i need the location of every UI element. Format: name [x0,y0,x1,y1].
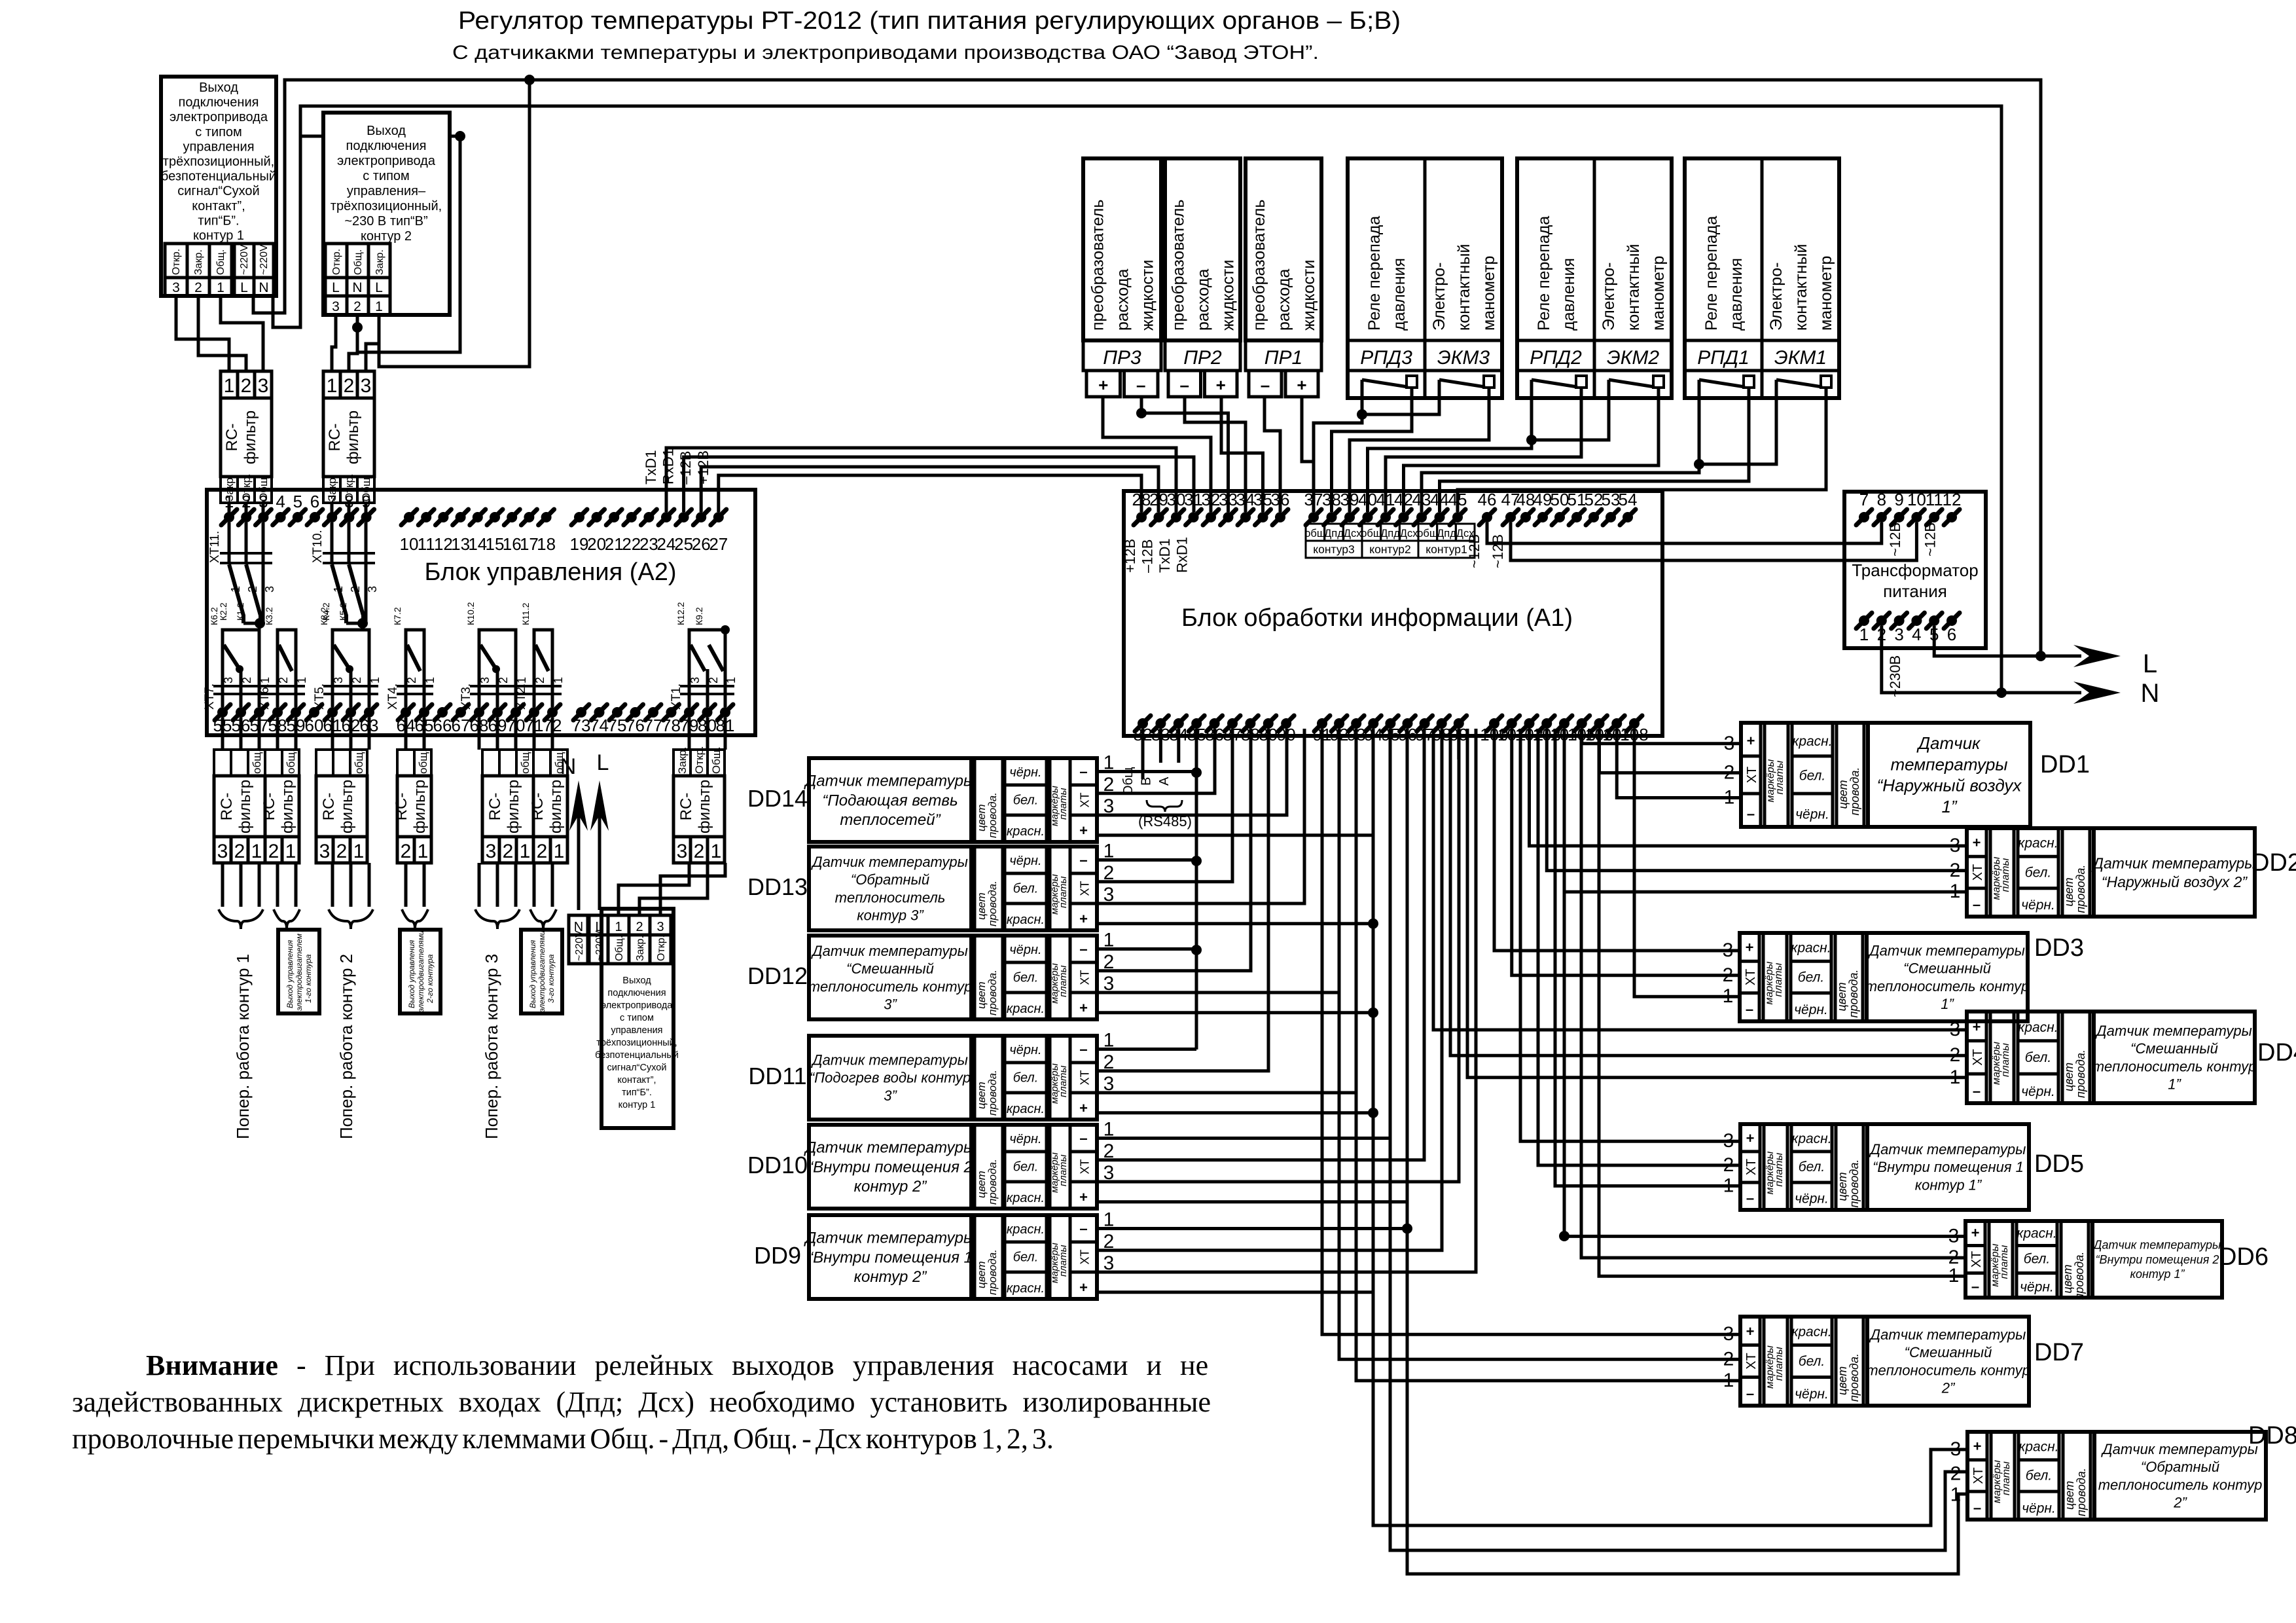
temperature sensor DD5 [1740,1124,2029,1210]
svg-text:цвет: цвет [2062,877,2075,906]
sensor pair box РПД1/ЭКМ1 [1685,158,1839,398]
svg-text:2: 2 [240,677,253,684]
svg-text:красн.: красн. [1791,1131,1831,1146]
svg-text:Закр.: Закр. [374,249,386,275]
svg-text:задействованных дискретных вхо: задействованных дискретных входах (Дпд; … [72,1386,1211,1418]
svg-text:1: 1 [554,841,565,862]
svg-text:электропривода: электропривода [337,154,436,168]
svg-text:фильтр: фильтр [547,780,565,833]
svg-text:“Обратный: “Обратный [2141,1459,2219,1475]
svg-text:–: – [1079,763,1087,780]
svg-text:1: 1 [224,375,235,397]
svg-text:–: – [1746,1001,1753,1017]
svg-text:3: 3 [361,375,372,397]
svg-text:DD9: DD9 [754,1242,801,1269]
svg-text:давления: давления [1390,258,1408,331]
svg-text:Датчик температуры: Датчик температуры [803,773,975,790]
wires DD4 from A1 pins 97-99 [1433,729,1967,1030]
svg-text:Откр.: Откр. [331,249,342,275]
svg-text:контур 2”: контур 2” [854,1178,927,1195]
svg-text:“Наружный воздух 2”: “Наружный воздух 2” [2102,873,2248,890]
wire bus N (from B1 ~220V N) across top [273,106,2001,693]
svg-text:расхода: расхода [1114,269,1132,331]
svg-text:4: 4 [276,492,285,511]
junction XT1 top [721,625,730,634]
wire ПР1+ to A1-37 riser [1302,397,1314,512]
temperature sensor DD1 [1741,723,2030,827]
svg-text:ЭКМ1: ЭКМ1 [1774,347,1827,369]
svg-text:Общ.: Общ. [215,249,226,275]
L output arrow [2041,655,2081,658]
svg-text:электродвигателями: электродвигателями [416,930,425,1012]
junction B2 N riser [455,131,465,141]
wire DD13-+ to +bus [1097,922,1373,925]
svg-text:контакт”,: контакт”, [617,1075,656,1085]
svg-text:бел.: бел. [1798,970,1824,985]
wire +12B A2-27 to A1-28 [719,475,1141,512]
svg-text:XT3.: XT3. [459,684,473,710]
svg-text:L: L [332,280,340,295]
wires DD8 (low routed) [1373,729,1967,1525]
svg-text:3: 3 [263,586,276,593]
svg-text:–: – [1747,805,1755,822]
svg-text:Реле перепада: Реле перепада [1365,216,1384,331]
svg-text:1: 1 [353,841,365,862]
A1 top terminals row (pins 28-54) [1134,509,1149,525]
junction B2-L riser on bus L [524,75,535,85]
box: Выход подключения электропривода ~230В тип В контур 2 [323,113,450,315]
svg-text:–: – [1261,375,1270,395]
svg-text:+: + [1747,733,1755,749]
wire DD13-3 to A1-91 [1097,729,1304,903]
temperature sensor DD6 [1965,1221,2222,1298]
junction L line [2036,651,2046,661]
temperature sensor DD9 [809,1215,1097,1299]
svg-text:25: 25 [674,534,693,554]
wires DD1 from A1 pins 105-107 [1582,729,1741,744]
svg-text:“Подающая ветвь: “Подающая ветвь [822,792,958,809]
svg-text:Закр.: Закр. [193,249,204,275]
svg-text:РПД3: РПД3 [1360,347,1412,369]
svg-text:1: 1 [259,677,272,684]
svg-text:3: 3 [366,586,379,593]
svg-text:13: 13 [451,534,470,554]
terminals +/- of ПР1 [1249,371,1282,397]
svg-text:“Внутри помещения 2: “Внутри помещения 2 [808,1158,973,1176]
svg-text:питания: питания [1883,581,1947,601]
svg-text:электродвигателями: электродвигателями [537,930,547,1012]
svg-text:1: 1 [423,677,437,684]
svg-text:контур 1: контур 1 [619,1100,656,1110]
svg-text:XT7.: XT7. [203,684,217,710]
wires DD7 [1322,729,1740,1334]
svg-text:чёрн.: чёрн. [2022,1501,2056,1516]
wire DD9-2 to A1-97 [1097,729,1442,1250]
svg-text:~220V: ~220V [239,244,250,275]
svg-text:49: 49 [1534,490,1552,509]
svg-text:Датчик температуры: Датчик температуры [810,943,968,959]
svg-text:–: – [1971,1279,1979,1295]
svg-text:L: L [597,750,609,775]
svg-text:Датчик температуры: Датчик температуры [1867,942,2025,958]
svg-text:Датчик температуры: Датчик температуры [810,854,968,870]
svg-text:жидкости: жидкости [1300,260,1318,331]
svg-text:3: 3 [319,841,331,862]
svg-text:контур 2: контур 2 [361,229,412,244]
svg-text:чёрн.: чёрн. [1009,765,1041,780]
svg-text:контакт”,: контакт”, [192,199,245,213]
svg-text:Реле перепада: Реле перепада [1535,216,1553,331]
svg-text:51: 51 [1568,490,1587,509]
svg-text:красн.: красн. [1007,1102,1045,1116]
svg-text:~220V: ~220V [574,930,585,961]
svg-text:2-го контура: 2-го контура [425,954,435,1004]
svg-text:фильтр: фильтр [344,410,362,464]
svg-text:расхода: расхода [1194,269,1213,331]
svg-text:электропривода: электропривода [601,1000,673,1011]
svg-text:75: 75 [608,716,627,735]
svg-text:платы: платы [1774,760,1785,794]
svg-text:“Подогрев воды контур: “Подогрев воды контур [810,1070,971,1086]
svg-text:общ.: общ. [353,749,365,774]
svg-text:ЭКМ2: ЭКМ2 [1607,347,1659,369]
svg-text:+: + [1973,1438,1982,1454]
RC-filter 1 bottom labels [221,477,238,503]
svg-text:подключения: подключения [179,96,259,110]
svg-text:платы: платы [1058,876,1069,908]
svg-text:L: L [240,280,248,295]
svg-text:жидкости: жидкости [1139,260,1157,331]
svg-text:ХТ: ХТ [1744,1353,1759,1370]
svg-text:ПР3: ПР3 [1103,347,1141,369]
svg-text:давления: давления [1560,258,1578,331]
svg-text:2: 2 [503,841,514,862]
svg-text:бел.: бел. [1799,768,1825,783]
junction XT10. common [357,618,368,629]
svg-text:53: 53 [1602,490,1621,509]
wire B1-1 to RC1-3 [221,296,263,371]
svg-text:XT6.: XT6. [258,684,272,710]
svg-text:+: + [1971,1225,1980,1241]
wire DD11-3 to A1-93 [1097,729,1356,1093]
box: Выход подключения электропривода тип Б контур 1 (top-left) [161,77,276,296]
svg-text:“Смешанный: “Смешанный [1903,960,1991,977]
svg-text:К5.2: К5.2 [338,602,348,621]
svg-text:XT2.: XT2. [514,684,528,710]
RC-filter 2 (below B2) [323,371,374,398]
RC-filter under A2 pins 321 [316,750,367,776]
svg-text:12: 12 [434,534,453,554]
svg-text:платы: платы [1774,1347,1785,1381]
svg-text:ХТ: ХТ [1079,970,1092,985]
svg-text:DD3: DD3 [2034,934,2084,962]
wire Дпд to A1-38 [1332,398,1412,512]
svg-text:–: – [1746,1385,1754,1402]
wire DD10-1 to A1-94 [1097,729,1390,1138]
svg-text:19: 19 [570,534,589,554]
svg-text:RxD1: RxD1 [660,448,677,484]
terminal block bottom box: N L / Общ Закр Откр [569,915,588,935]
temperature sensor DD7 [1740,1317,2029,1406]
A2 bottom terminals row (pins 55-81) [215,704,230,720]
svg-text:2: 2 [336,841,348,862]
svg-text:28: 28 [1132,490,1151,509]
svg-text:–: – [1079,852,1087,868]
N output arrow [2001,691,2081,695]
svg-text:Выход управления: Выход управления [528,939,537,1008]
svg-text:цвет: цвет [1836,1366,1849,1395]
wire B1-2 to RC1-2 [198,296,246,371]
svg-text:+12В: +12В [1122,539,1138,573]
svg-text:3: 3 [478,677,492,684]
svg-text:Электро-: Электро- [1767,263,1785,331]
svg-text:26: 26 [692,534,711,554]
svg-text:бел.: бел. [2025,865,2051,880]
svg-text:“Внутри помещения 2: “Внутри помещения 2 [2096,1253,2219,1266]
relay contact group XT6. (A2 bottom) [278,630,296,707]
wire DD10-+ long bus [1097,1200,1407,1203]
svg-text:Блок обработки информации (А1): Блок обработки информации (А1) [1181,604,1573,632]
wire DD9-+ long [1097,1290,1373,1294]
svg-text:–12В: –12В [1139,539,1156,573]
svg-text:1: 1 [615,920,622,934]
svg-text:+: + [1216,375,1226,395]
svg-text:–: – [1079,1041,1087,1057]
svg-text:Внимание - При использовании: Внимание - При использовании релейных вы… [146,1349,1208,1381]
wire Дсх to A1-42 [1404,398,1659,512]
svg-text:ХТ: ХТ [1745,767,1759,784]
svg-text:трёхпозиционный,: трёхпозиционный, [163,155,274,169]
svg-text:общ.: общ. [417,749,429,774]
svg-text:цвет: цвет [2063,1481,2076,1510]
svg-text:контактный: контактный [1792,244,1810,331]
svg-text:1”: 1” [1941,797,1957,816]
svg-text:+: + [1079,1000,1088,1016]
box: Выход подключения электропривода тип Б контур 1 (bottom) [601,909,673,1128]
sensor box ПР2 [1165,158,1240,340]
svg-text:бел.: бел. [2026,1468,2052,1484]
svg-text:сигнал“Сухой: сигнал“Сухой [177,184,259,198]
wire DD11-2 to A1-89 [1097,729,1268,1071]
temperature sensor DD13 [809,847,1097,930]
svg-text:безпотенциальный: безпотенциальный [161,170,276,184]
wire общ junction for pins (40, 41, 42) [1532,398,1609,440]
wire B2 L riser to bus L [379,80,529,367]
svg-text:трёхпозиционный,: трёхпозиционный, [596,1038,677,1048]
svg-text:ХТ: ХТ [1079,1249,1092,1264]
wire B2 N branch to bus N riser [357,136,460,352]
svg-text:контактный: контактный [1455,244,1473,331]
relay contact group XT10. (A2 top) [331,522,334,564]
svg-text:К11.2: К11.2 [520,602,531,625]
svg-text:бел.: бел. [2024,1251,2050,1266]
wire B2-3 to RC2-1 [332,315,336,371]
svg-text:жидкости: жидкости [1219,260,1238,331]
svg-text:общ: общ [1417,528,1439,539]
svg-text:фильтр: фильтр [279,780,296,833]
svg-text:Общ.: Общ. [614,936,625,961]
sensor pair box РПД2/ЭКМ2 [1517,158,1672,398]
svg-text:+: + [1079,1189,1088,1205]
svg-text:чёрн.: чёрн. [2021,1084,2055,1099]
svg-text:2: 2 [537,841,548,862]
svg-text:трёхпозиционный,: трёхпозиционный, [331,199,442,213]
svg-text:Выход: Выход [622,976,651,986]
svg-text:общ.: общ. [519,749,531,774]
svg-text:контур3: контур3 [1313,543,1354,556]
temperature sensor DD14 [809,758,1097,842]
svg-text:платы: платы [1058,1245,1069,1277]
svg-text:с типом: с типом [363,169,410,183]
svg-text:6: 6 [1947,625,1956,644]
svg-text:Электро-: Электро- [1430,263,1448,331]
svg-text:3”: 3” [884,996,897,1013]
svg-text:красн.: красн. [2017,1226,2056,1241]
svg-text:ХТ: ХТ [1744,969,1758,986]
svg-text:8: 8 [1877,490,1886,509]
svg-text:1”: 1” [1941,996,1954,1012]
svg-text:77: 77 [644,716,663,735]
RC-filter under A2 pins 321 [673,750,725,776]
svg-text:RC-: RC- [486,793,504,821]
svg-text:электродвигателем: электродвигателем [295,934,304,1011]
svg-text:бел.: бел. [1013,1250,1039,1264]
svg-text:чёрн.: чёрн. [1794,1002,1828,1017]
svg-text:73: 73 [572,716,591,735]
svg-text:+: + [1746,1130,1755,1146]
boxed label: Выход управления электродвигателями 3-го контура [521,930,562,1013]
wire TxD1 A2-24 to A1-30 [666,448,1176,512]
temperature sensor DD12 [809,936,1097,1019]
svg-text:красн.: красн. [1792,734,1832,749]
svg-text:2: 2 [268,841,279,862]
svg-text:Общ.: Общ. [710,746,723,774]
svg-text:1: 1 [1859,625,1869,644]
svg-text:7: 7 [1859,490,1869,509]
svg-text:“Обратный: “Обратный [851,871,929,888]
svg-text:провода.: провода. [986,1159,999,1205]
svg-text:XT10.: XT10. [311,530,325,563]
svg-text:чёрн.: чёрн. [1009,943,1041,957]
svg-text:1: 1 [711,841,722,862]
svg-text:DD10: DD10 [747,1152,808,1178]
svg-text:манометр: манометр [1649,256,1668,331]
svg-text:“Внутри помещения 1: “Внутри помещения 1 [808,1249,973,1266]
svg-text:2”: 2” [2173,1495,2187,1511]
svg-text:1: 1 [217,280,224,295]
svg-text:РПД2: РПД2 [1530,347,1582,369]
svg-text:17: 17 [520,534,539,554]
svg-text:провода.: провода. [1848,767,1861,816]
svg-text:+: + [1297,375,1306,395]
svg-text:18: 18 [537,534,556,554]
svg-text:бел.: бел. [1013,793,1039,807]
temperature sensor DD8 [1967,1432,2266,1520]
svg-text:2: 2 [242,492,251,511]
svg-text:Закр.: Закр. [676,747,689,774]
svg-text:~12В: ~12В [1490,534,1506,568]
svg-text:2: 2 [234,841,245,862]
svg-text:бел.: бел. [1013,881,1039,896]
svg-text:10: 10 [1907,490,1926,509]
svg-text:–: – [1746,1190,1754,1207]
output wires group contour 1 with brace [221,863,224,907]
svg-text:Закр.: Закр. [635,936,646,961]
svg-text:теплоноситель контур: теплоноситель контур [808,978,973,994]
svg-text:3: 3 [332,677,345,684]
svg-text:46: 46 [1478,490,1497,509]
svg-text:Дпд: Дпд [1437,528,1456,539]
svg-text:фильтр: фильтр [411,780,429,833]
svg-text:подключения: подключения [607,988,666,998]
svg-text:2: 2 [707,677,720,684]
RC-filter under A2 pins 21 [397,750,431,776]
svg-text:теплоноситель контур: теплоноситель контур [2092,1058,2257,1074]
svg-text:контур 1”: контур 1” [1915,1176,1982,1193]
svg-text:платы: платы [2000,1043,2011,1077]
svg-text:теплосетей”: теплосетей” [840,811,941,829]
svg-text:Выход: Выход [199,81,238,95]
terminal block of B1: Откр3 Закр2 Общ1 ~220V L ~220V N [165,244,187,278]
svg-text:67: 67 [452,716,471,735]
svg-text:29: 29 [1149,490,1168,509]
svg-text:платы: платы [1058,788,1069,820]
wire ПР3+ to A1-32 [1103,397,1211,512]
relay contact group XT7. (A2 bottom) [223,630,259,707]
wires A2 bottom pins to lower RC filters [221,718,224,750]
transformer top terminals (pins 7-12) [1856,509,1872,525]
relay contact group XT4. (A2 bottom) [406,630,424,707]
svg-text:провода.: провода. [986,970,999,1015]
svg-text:3: 3 [1894,625,1903,644]
svg-text:Дсх: Дсх [1344,528,1362,539]
svg-text:11: 11 [1926,490,1943,509]
svg-text:бел.: бел. [1013,970,1039,985]
svg-text:Датчик температуры: Датчик температуры [1869,1141,2026,1158]
svg-text:5: 5 [293,492,302,511]
svg-text:безпотенциальный: безпотенциальный [595,1050,679,1061]
svg-text:–: – [1136,375,1145,395]
svg-text:DD14: DD14 [747,785,808,812]
svg-text:3: 3 [258,375,269,397]
svg-text:чёрн.: чёрн. [1009,854,1041,868]
svg-text:бел.: бел. [2025,1050,2051,1065]
wire ПР3- to A1-33 [1141,397,1229,512]
svg-text:теплоноситель контур: теплоноситель контур [2098,1476,2263,1493]
svg-text:Откр.: Откр. [171,249,182,275]
svg-text:DD6: DD6 [2219,1243,2269,1271]
svg-text:31: 31 [1184,490,1203,509]
svg-text:“Наружный воздух: “Наружный воздух [1877,776,2022,795]
svg-text:К2.2: К2.2 [218,602,228,621]
svg-text:2”: 2” [1941,1380,1956,1396]
svg-text:3: 3 [677,841,688,862]
svg-text:1”: 1” [2168,1076,2181,1093]
svg-text:провода.: провода. [986,1249,999,1295]
svg-text:2: 2 [350,677,363,684]
svg-text:N: N [560,754,577,779]
pressure switch contact of ЭКМ2 [1607,380,1611,398]
svg-text:с типом: с типом [620,1013,654,1023]
svg-text:контур 1: контур 1 [193,228,244,243]
A1 bottom terminals row (pins 82-108) [1135,716,1151,731]
svg-text:RC-: RC- [529,793,547,821]
svg-text:Трансформатор: Трансформатор [1852,560,1978,580]
wire RC2 outputs to A2 terminals 7-9 [331,503,334,517]
wire общ junction for pins (37, 38, 39) [1362,398,1439,414]
svg-text:Электро-: Электро- [1600,263,1618,331]
svg-text:RC-: RC- [393,793,410,821]
